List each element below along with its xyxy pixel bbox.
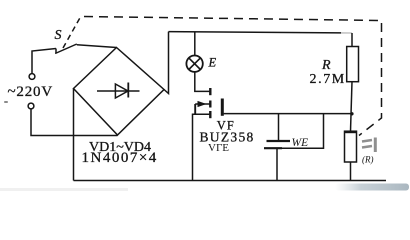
dashed enclosure line	[84, 17, 382, 136]
scan smudge (bottom left)	[0, 188, 128, 191]
scan speck (left)	[4, 101, 8, 103]
diode inside bridge	[97, 83, 140, 99]
AC terminal (upper)	[29, 74, 35, 80]
wire	[74, 180, 387, 182]
resistor R	[347, 33, 359, 131]
wire	[282, 114, 324, 149]
svg-text:WE: WE	[292, 137, 309, 149]
junction	[350, 112, 353, 115]
svg-text:VΓE: VΓE	[208, 142, 229, 154]
svg-text:R: R	[321, 58, 331, 73]
wire	[169, 32, 342, 33]
svg-text:E: E	[208, 56, 217, 70]
switch S	[55, 44, 77, 54]
wire	[31, 109, 118, 136]
wire	[73, 89, 75, 181]
wire	[224, 113, 352, 115]
wire	[164, 32, 169, 94]
resistor (lower right)	[345, 131, 357, 180]
lamp E	[186, 32, 202, 72]
svg-text:1N4007×4: 1N4007×4	[82, 150, 158, 166]
wire	[77, 45, 117, 48]
svg-text:S: S	[55, 28, 62, 43]
capacitor C	[264, 114, 290, 181]
svg-text:~220V: ~220V	[8, 84, 53, 100]
wire	[32, 49, 56, 74]
transistor VF (MOSFET)	[193, 72, 223, 181]
svg-text:(R): (R)	[362, 155, 374, 165]
svg-text:2.7M: 2.7M	[310, 72, 346, 87]
AC terminal (lower)	[28, 103, 34, 109]
dashed link (switch to enclosure)	[63, 16, 81, 48]
bridge rectifier VD1~VD4	[74, 48, 165, 136]
watermark (gray marks right)	[362, 138, 377, 153]
